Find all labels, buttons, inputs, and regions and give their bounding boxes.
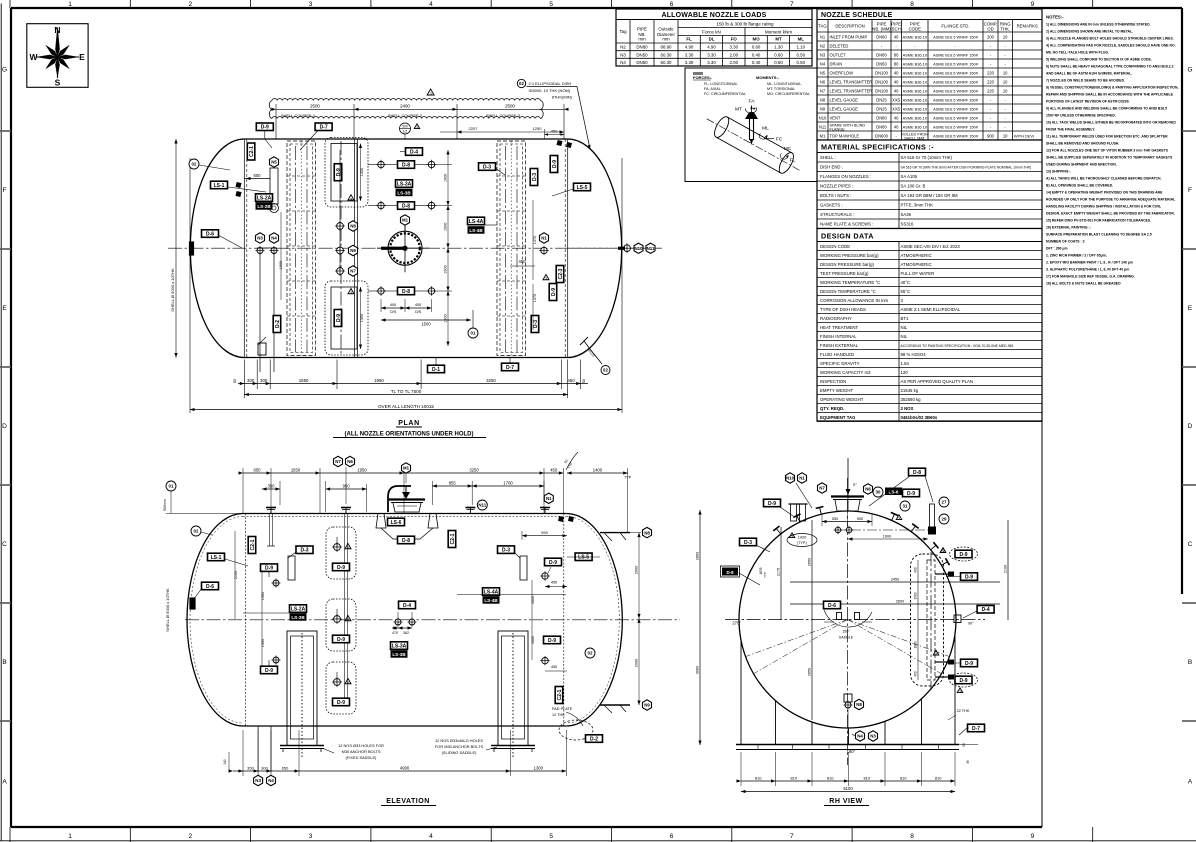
- svg-text:140: 140: [223, 759, 227, 765]
- svg-text:550: 550: [857, 517, 863, 521]
- svg-text:DN80: DN80: [876, 124, 887, 129]
- svg-text:D-3: D-3: [483, 164, 491, 170]
- svg-text:02: 02: [588, 651, 593, 656]
- svg-text:ASME B16.5 WNRF 150#: ASME B16.5 WNRF 150#: [933, 106, 979, 111]
- svg-text:5: 5: [549, 1, 553, 8]
- svg-text:N9: N9: [644, 703, 650, 708]
- svg-text:C: C: [1188, 541, 1193, 548]
- svg-text:D-6: D-6: [206, 584, 214, 590]
- svg-text:N8: N8: [820, 97, 826, 102]
- svg-text:THK.: THK.: [1000, 26, 1010, 31]
- svg-text:950: 950: [343, 484, 351, 489]
- svg-text:DESIGN DATA: DESIGN DATA: [821, 232, 874, 241]
- svg-text:SADDLE: SADDLE: [839, 636, 854, 640]
- svg-text:3.30: 3.30: [707, 60, 716, 65]
- svg-text:13) SHIPPING:-: 13) SHIPPING:-: [1046, 170, 1071, 174]
- svg-text:N1: N1: [820, 34, 826, 39]
- svg-text:PORTIONS OF LATEST REVISION OF: PORTIONS OF LATEST REVISION OF ASTM D329…: [1046, 100, 1130, 104]
- svg-text:D: D: [1188, 423, 1193, 430]
- svg-text:8THK(MIN): 8THK(MIN): [552, 95, 573, 100]
- svg-text:O/S: O/S: [390, 310, 397, 314]
- svg-text:D-8: D-8: [402, 203, 410, 209]
- svg-text:01: 01: [169, 484, 174, 489]
- svg-text:DN25: DN25: [876, 97, 887, 102]
- svg-text:950: 950: [541, 530, 548, 535]
- svg-text:3.30: 3.30: [685, 52, 694, 57]
- svg-text:810: 810: [827, 775, 834, 780]
- svg-text:350: 350: [247, 765, 254, 770]
- svg-text:1420: 1420: [798, 536, 806, 540]
- svg-text:INSPECTION: INSPECTION: [820, 379, 846, 384]
- svg-text:N5: N5: [820, 70, 826, 75]
- svg-text:B: B: [1188, 659, 1192, 666]
- svg-text:SHELL COURSE-2: SHELL COURSE-2: [388, 113, 423, 118]
- svg-text:2100: 2100: [234, 571, 238, 579]
- svg-text:14) EMPTY & OPERATING WEIGHT P: 14) EMPTY & OPERATING WEIGHT PROVIDED ON…: [1046, 191, 1163, 195]
- svg-text:E: E: [1188, 305, 1193, 312]
- svg-text:6) NUTS SHALL BE HEAVY HEXAGON: 6) NUTS SHALL BE HEAVY HEXAGONAL TYPE CO…: [1046, 65, 1174, 69]
- svg-text:4: 4: [429, 833, 433, 840]
- svg-text:A: A: [2, 779, 7, 786]
- svg-text:LEVEL TRANSMITTER: LEVEL TRANSMITTER: [830, 79, 873, 84]
- svg-text:M30 ANCHOR BOLTS: M30 ANCHOR BOLTS: [342, 749, 381, 754]
- svg-text:SHALL BE SUPPLIED SEPERATELY I: SHALL BE SUPPLIED SEPERATELY IN ADDITION…: [1046, 156, 1173, 160]
- svg-text:450: 450: [551, 581, 557, 585]
- svg-text:LEVEL GAUGE: LEVEL GAUGE: [830, 97, 859, 102]
- svg-text:2 NOS: 2 NOS: [901, 406, 914, 411]
- svg-text:810: 810: [790, 775, 797, 780]
- svg-text:D-9: D-9: [265, 668, 273, 674]
- svg-text:DL: DL: [709, 37, 715, 42]
- svg-text:E: E: [2, 305, 7, 312]
- svg-text:30: 30: [876, 490, 881, 495]
- svg-text:D-3: D-3: [300, 548, 308, 554]
- svg-text:CODE: CODE: [909, 26, 922, 31]
- svg-text:ASME B36.10: ASME B36.10: [903, 124, 928, 129]
- svg-text:MT: TORSIONAL: MT: TORSIONAL: [767, 87, 795, 91]
- svg-text:ATMOSPHERIC: ATMOSPHERIC: [901, 262, 932, 267]
- svg-text:N7: N7: [335, 459, 341, 464]
- svg-text:SHELL Ø 5000 x 10THK: SHELL Ø 5000 x 10THK: [165, 588, 170, 632]
- svg-text:2000: 2000: [635, 659, 639, 667]
- svg-text:02: 02: [603, 368, 608, 373]
- svg-text:DN100: DN100: [875, 70, 888, 75]
- svg-text:DESIGN CODE: DESIGN CODE: [820, 244, 850, 249]
- svg-text:90°: 90°: [968, 622, 974, 626]
- svg-text:ASME B36.10: ASME B36.10: [903, 79, 928, 84]
- svg-text:8: 8: [910, 833, 914, 840]
- svg-text:40: 40: [894, 34, 899, 39]
- svg-text:SPECIFIC GRAVITY: SPECIFIC GRAVITY: [820, 361, 860, 366]
- svg-text:500mm: 500mm: [163, 499, 167, 511]
- svg-text:DN80: DN80: [636, 45, 648, 50]
- svg-text:Force kN: Force kN: [702, 30, 721, 35]
- svg-text:FL: FL: [790, 158, 796, 164]
- svg-text:300: 300: [261, 765, 268, 770]
- svg-text:BOLTS / NUTS :: BOLTS / NUTS :: [820, 193, 851, 198]
- svg-text:NUMBER OF COATS : 3: NUMBER OF COATS : 3: [1046, 240, 1085, 244]
- svg-text:8) VESSEL CONSTRUCTION(BUILDIN: 8) VESSEL CONSTRUCTION(BUILDING) & PAINT…: [1046, 86, 1178, 90]
- svg-text:LS-6: LS-6: [889, 489, 899, 494]
- svg-text:LS-5: LS-5: [577, 185, 588, 191]
- svg-text:450: 450: [551, 665, 557, 669]
- svg-text:(TYP.): (TYP.): [797, 541, 807, 545]
- svg-text:REPAIR AND SHIPPING SHALL BE I: REPAIR AND SHIPPING SHALL BE IN ACCORDAN…: [1046, 93, 1174, 97]
- svg-text:10: 10: [1003, 34, 1008, 39]
- svg-text:17) FOR MANHOLE SIZE REF VESSE: 17) FOR MANHOLE SIZE REF VESSEL G.A. DRA…: [1046, 275, 1135, 279]
- svg-text:D-9: D-9: [965, 661, 973, 667]
- svg-text:1900: 1900: [883, 535, 891, 539]
- svg-text:6: 6: [670, 1, 674, 8]
- svg-text:SA36: SA36: [901, 212, 912, 217]
- svg-text:EMPTY WEIGHT: EMPTY WEIGHT: [820, 388, 853, 393]
- svg-text:2175: 2175: [777, 568, 781, 576]
- svg-text:450: 450: [567, 378, 575, 383]
- svg-text:810: 810: [935, 775, 942, 780]
- svg-text:0461b0s/02 3B60s: 0461b0s/02 3B60s: [901, 415, 938, 420]
- svg-text:LS-3B: LS-3B: [392, 652, 406, 657]
- svg-text:ROUNDED UP ONLY FOR THE PURPO: ROUNDED UP ONLY FOR THE PURPOSE TO ARRAN…: [1046, 198, 1175, 202]
- svg-text:1.84: 1.84: [901, 361, 910, 366]
- svg-text:TAG: TAG: [818, 24, 827, 29]
- svg-text:SHELL Ø 5000 x 10THK: SHELL Ø 5000 x 10THK: [170, 268, 175, 312]
- svg-text:TEST PRESSURE bar(g): TEST PRESSURE bar(g): [820, 271, 869, 276]
- svg-text:OPERATING WEIGHT: OPERATING WEIGHT: [820, 397, 864, 402]
- svg-text:650: 650: [282, 765, 289, 770]
- svg-text:D-7: D-7: [320, 125, 328, 131]
- svg-text:D-3: D-3: [533, 320, 539, 328]
- svg-text:VENT: VENT: [830, 115, 841, 120]
- svg-text:F: F: [3, 187, 7, 194]
- svg-text:220: 220: [987, 70, 995, 75]
- svg-text:N4: N4: [268, 778, 274, 783]
- svg-text:FC: CIRCUMFERENTIAL: FC: CIRCUMFERENTIAL: [704, 92, 746, 96]
- svg-text:2207: 2207: [469, 126, 479, 131]
- svg-text:DESIGN PRESSURE bar(g): DESIGN PRESSURE bar(g): [820, 262, 875, 267]
- svg-text:2500: 2500: [310, 104, 320, 109]
- svg-text:2450: 2450: [891, 578, 899, 582]
- svg-text:1) ALL DIMENSIONS ARE IN mm UN: 1) ALL DIMENSIONS ARE IN mm UNLESS OTHER…: [1046, 23, 1151, 27]
- svg-text:40: 40: [894, 124, 899, 129]
- svg-text:F: F: [1188, 187, 1192, 194]
- svg-text:MO: MO: [753, 37, 761, 42]
- svg-text:MC: MC: [784, 146, 792, 152]
- svg-text:INLET FROM PUMP: INLET FROM PUMP: [830, 34, 868, 39]
- svg-text:SHELL COURSE-3: SHELL COURSE-3: [486, 113, 521, 118]
- svg-text:LEVEL TRANSMITTER: LEVEL TRANSMITTER: [830, 88, 873, 93]
- svg-text:D-9: D-9: [959, 552, 967, 558]
- svg-text:FLANGE STD.: FLANGE STD.: [941, 24, 969, 29]
- svg-text:W: W: [29, 52, 38, 62]
- svg-text:N1: N1: [541, 236, 547, 241]
- svg-text:2000: 2000: [635, 566, 639, 574]
- svg-text:D-9: D-9: [265, 565, 273, 571]
- svg-text:9) ALL FLANGES AND WELDING SHA: 9) ALL FLANGES AND WELDING SHALL BE CONF…: [1046, 107, 1167, 111]
- svg-text:LS-6: LS-6: [391, 520, 402, 526]
- svg-text:TL TO TL 7500: TL TO TL 7500: [391, 389, 422, 394]
- svg-text:2650: 2650: [808, 558, 812, 566]
- svg-text:WORKING PRESSURE bar(g): WORKING PRESSURE bar(g): [820, 253, 879, 258]
- svg-text:DN25: DN25: [876, 106, 887, 111]
- svg-text:1950: 1950: [374, 378, 384, 383]
- svg-text:BT1: BT1: [901, 316, 909, 321]
- svg-text:M1: M1: [820, 133, 826, 138]
- svg-text:DN100: DN100: [875, 79, 888, 84]
- svg-text:ELEVATION: ELEVATION: [386, 798, 430, 805]
- svg-text:5: 5: [549, 833, 553, 840]
- svg-text:OVER ALL LENGTH 10015: OVER ALL LENGTH 10015: [378, 404, 434, 409]
- svg-text:11) ALL TEMPORARY WELDS USED F: 11) ALL TEMPORARY WELDS USED FOR ERECTIO…: [1046, 135, 1168, 139]
- svg-text:3) ALL NOZZLE FLANGES BOLT HOL: 3) ALL NOZZLE FLANGES BOLT HOLES SHOULD …: [1046, 37, 1174, 41]
- svg-text:PIPE: PIPE: [637, 27, 647, 32]
- svg-text:D-3: D-3: [502, 547, 510, 553]
- svg-text:FROM THE FINAL ASSEMBLY.: FROM THE FINAL ASSEMBLY.: [1046, 128, 1095, 132]
- svg-text:12 NOS Ø33x46LG HOLES: 12 NOS Ø33x46LG HOLES: [435, 738, 483, 743]
- svg-text:B: B: [2, 659, 6, 666]
- svg-text:900: 900: [987, 133, 995, 138]
- svg-text:10) ALL TACK WELDS SHALL EITHE: 10) ALL TACK WELDS SHALL EITHER BE INCOR…: [1046, 121, 1176, 125]
- svg-text:OVERFLOW: OVERFLOW: [830, 70, 854, 75]
- svg-text:S: S: [55, 78, 61, 88]
- svg-text:D-8: D-8: [913, 470, 921, 476]
- svg-text:2.00: 2.00: [730, 60, 739, 65]
- svg-text:12) FOR ALL NOZZLES ONE SET OF: 12) FOR ALL NOZZLES ONE SET OF VITON RUB…: [1046, 149, 1169, 153]
- svg-text:7: 7: [790, 833, 794, 840]
- svg-text:FL: FL: [686, 37, 692, 42]
- svg-text:D-4: D-4: [410, 149, 418, 155]
- svg-text:LS-3B: LS-3B: [397, 191, 411, 196]
- svg-text:B) ALL OPENINGS SHALL BE COVER: B) ALL OPENINGS SHALL BE COVERED.: [1046, 184, 1113, 188]
- svg-text:WORKING CAPACITY m3: WORKING CAPACITY m3: [820, 370, 871, 375]
- svg-text:D-9: D-9: [337, 637, 345, 643]
- svg-text:ASME SEC-VIII DIV I Ed. 2023: ASME SEC-VIII DIV I Ed. 2023: [901, 244, 961, 249]
- svg-text:N6: N6: [865, 487, 871, 492]
- svg-text:40°C: 40°C: [901, 280, 911, 285]
- svg-text:FC: FC: [776, 137, 783, 143]
- svg-text:M6. NO TELL-TALE HOLE WITH PLU: M6. NO TELL-TALE HOLE WITH PLUG.: [1046, 51, 1109, 55]
- svg-text:LS-1: LS-1: [211, 555, 222, 561]
- svg-text:EQUIPMENT TAG: EQUIPMENT TAG: [820, 415, 856, 420]
- svg-text:N10: N10: [634, 246, 643, 251]
- svg-text:DESIGN. EXACT EMPTY WEIGHT SHA: DESIGN. EXACT EMPTY WEIGHT SHALL BE PROV…: [1046, 212, 1175, 216]
- svg-text:18) ALL BOLTS & NUTS SHALL BE: 18) ALL BOLTS & NUTS SHALL BE GREASED: [1046, 282, 1121, 286]
- svg-text:TYP: TYP: [763, 572, 767, 578]
- svg-text:3.30: 3.30: [685, 60, 694, 65]
- svg-text:Tag: Tag: [619, 29, 627, 34]
- svg-text:ASME B16.5 WNRF 150#: ASME B16.5 WNRF 150#: [933, 61, 979, 66]
- svg-text:150 lb & 300 lb flange rating: 150 lb & 300 lb flange rating: [716, 22, 774, 27]
- svg-text:50: 50: [962, 743, 966, 747]
- svg-text:200: 200: [987, 34, 995, 39]
- svg-text:12 THK: 12 THK: [552, 713, 565, 717]
- svg-text:ASME B16.5 WNRF 150#: ASME B16.5 WNRF 150#: [933, 52, 979, 57]
- svg-text:1250: 1250: [533, 126, 543, 131]
- svg-text:N9: N9: [350, 248, 356, 253]
- svg-text:ASME B16.5 WNRF 150#: ASME B16.5 WNRF 150#: [933, 88, 979, 93]
- svg-text:10: 10: [1003, 88, 1008, 93]
- svg-text:1500: 1500: [421, 322, 431, 327]
- svg-text:ASME B16.5 WNRF 150#: ASME B16.5 WNRF 150#: [933, 70, 979, 75]
- svg-text:HANDLING FACILITY DURING SHIP: HANDLING FACILITY DURING SHIPPING / INST…: [1046, 205, 1161, 209]
- svg-text:N10: N10: [819, 115, 827, 120]
- svg-text:01: 01: [471, 331, 476, 336]
- svg-text:PAD PLATE: PAD PLATE: [552, 707, 573, 711]
- svg-text:4900: 4900: [400, 765, 410, 770]
- svg-text:120: 120: [901, 370, 909, 375]
- svg-text:D-9: D-9: [549, 560, 557, 566]
- svg-text:3060: 3060: [696, 666, 700, 674]
- svg-text:FL: LONGITUDINAL: FL: LONGITUDINAL: [704, 82, 738, 86]
- svg-text:A: A: [1188, 779, 1193, 786]
- svg-text:1900: 1900: [444, 174, 448, 182]
- svg-text:3250: 3250: [469, 467, 479, 472]
- svg-text:MOMENTS:-: MOMENTS:-: [756, 75, 780, 80]
- svg-text:400: 400: [415, 303, 421, 307]
- svg-text:M1: M1: [402, 218, 409, 223]
- svg-text:A) ALL TANKS WILL BE THOROUGHL: A) ALL TANKS WILL BE THOROUGHLY CLEANED …: [1046, 177, 1162, 181]
- svg-text:16) EXTERNAL PAINTING :-: 16) EXTERNAL PAINTING :-: [1046, 226, 1091, 230]
- svg-text:ASME B36.10: ASME B36.10: [903, 70, 928, 75]
- svg-text:8: 8: [910, 1, 914, 8]
- svg-text:DRAIN: DRAIN: [830, 61, 843, 66]
- svg-text:ASME B16.5 WNRF 150#: ASME B16.5 WNRF 150#: [933, 34, 979, 39]
- svg-text:55°C: 55°C: [901, 289, 911, 294]
- svg-text:7: 7: [790, 1, 794, 8]
- svg-text:400: 400: [914, 671, 918, 677]
- svg-text:35: 35: [966, 760, 970, 764]
- svg-text:LS-4A: LS-4A: [469, 219, 484, 225]
- svg-text:AND SHALL BE OF ASTM A194 Gr8M: AND SHALL BE OF ASTM A194 Gr8M/8S. MATER…: [1046, 72, 1132, 76]
- svg-text:50: 50: [582, 379, 586, 383]
- svg-text:27: 27: [942, 500, 947, 505]
- svg-text:810: 810: [863, 775, 870, 780]
- svg-text:LS-1: LS-1: [214, 183, 225, 189]
- svg-text:1000: 1000: [531, 596, 535, 604]
- svg-text:DISH END :: DISH END :: [820, 165, 843, 170]
- svg-text:FO: FO: [731, 37, 738, 42]
- svg-text:CORROSION ALLOWANCE IN mm: CORROSION ALLOWANCE IN mm: [820, 298, 889, 303]
- svg-text:3.30: 3.30: [707, 52, 716, 57]
- svg-text:N4: N4: [620, 60, 626, 65]
- svg-text:7) NOZZLES ON WELD SEAMS TO BE: 7) NOZZLES ON WELD SEAMS TO BE AVOIDED.: [1046, 79, 1125, 83]
- svg-text:FINISH EXTERNAL: FINISH EXTERNAL: [820, 343, 859, 348]
- svg-text:02: 02: [192, 162, 197, 167]
- svg-text:0.60: 0.60: [752, 45, 761, 50]
- svg-text:N: N: [54, 25, 60, 35]
- svg-text:3. ALIPHATIC POLYURETHANE: 3. ALIPHATIC POLYURETHANE / 1, 8, R/ DFT…: [1046, 268, 1129, 272]
- svg-text:0.60: 0.60: [774, 52, 783, 57]
- svg-text:0.40: 0.40: [752, 52, 761, 57]
- svg-text:0.40: 0.40: [752, 60, 761, 65]
- svg-text:N3: N3: [820, 52, 826, 57]
- svg-text:N3: N3: [620, 52, 626, 57]
- svg-text:1: 1: [68, 1, 72, 8]
- svg-text:2: 2: [188, 1, 192, 8]
- svg-text:400: 400: [914, 567, 918, 573]
- svg-text:350: 350: [268, 484, 276, 489]
- svg-text:1700: 1700: [503, 481, 513, 486]
- svg-text:G: G: [2, 67, 7, 74]
- svg-text:10: 10: [1003, 79, 1008, 84]
- svg-text:FLANGE: FLANGE: [830, 127, 846, 131]
- svg-text:N1: N1: [546, 496, 552, 501]
- svg-text:4: 4: [429, 1, 433, 8]
- svg-text:220: 220: [987, 88, 995, 93]
- svg-text:ASME B36.10: ASME B36.10: [903, 115, 928, 120]
- svg-text:N8: N8: [350, 224, 356, 229]
- svg-text:ML: ML: [762, 126, 769, 132]
- svg-text:1.30: 1.30: [774, 45, 783, 50]
- svg-text:LS-4B: LS-4B: [484, 598, 498, 603]
- svg-text:88.90: 88.90: [661, 45, 673, 50]
- svg-text:N11: N11: [647, 246, 655, 251]
- svg-text:D-9: D-9: [552, 160, 558, 168]
- svg-text:NIL: NIL: [901, 334, 908, 339]
- svg-text:mm: mm: [662, 37, 670, 42]
- svg-text:22 THK: 22 THK: [957, 709, 970, 713]
- svg-text:N4: N4: [271, 236, 277, 241]
- svg-text:1550: 1550: [291, 467, 301, 472]
- svg-text:10: 10: [1003, 133, 1008, 138]
- svg-text:1900: 1900: [261, 592, 265, 600]
- svg-text:DFT : 260 μm: DFT : 260 μm: [1046, 247, 1068, 251]
- svg-text:98 % H2SO4: 98 % H2SO4: [901, 352, 927, 357]
- svg-text:FORCES:-: FORCES:-: [693, 75, 713, 80]
- svg-text:N7: N7: [820, 88, 826, 93]
- svg-text:40: 40: [894, 115, 899, 120]
- svg-text:QTY. REQD.: QTY. REQD.: [820, 406, 844, 411]
- svg-text:450: 450: [550, 467, 558, 472]
- svg-text:1. ZINC RICH PRIMER / 2 /: 1. ZINC RICH PRIMER / 2 / DFT 65μm.: [1046, 254, 1107, 258]
- svg-text:C2-1: C2-1: [250, 539, 256, 550]
- svg-text:40: 40: [894, 88, 899, 93]
- svg-text:D-9: D-9: [548, 638, 556, 644]
- svg-text:2) ALL DIMENSIONS SHOWN ARE ME: 2) ALL DIMENSIONS SHOWN ARE METAL TO MET…: [1046, 30, 1133, 34]
- svg-text:300: 300: [260, 378, 268, 383]
- svg-text:2600: 2600: [896, 600, 904, 604]
- svg-text:LS-2B: LS-2B: [291, 615, 305, 620]
- svg-text:150°: 150°: [842, 630, 850, 634]
- svg-text:1: 1: [68, 833, 72, 840]
- svg-text:N5: N5: [271, 160, 277, 165]
- svg-text:ASME B36.10: ASME B36.10: [903, 106, 928, 111]
- svg-text:ASME B36.10: ASME B36.10: [903, 61, 928, 66]
- svg-text:AS PER APPROVED QUALITY PLAN: AS PER APPROVED QUALITY PLAN: [901, 379, 974, 384]
- svg-text:FINISH INTERNAL: FINISH INTERNAL: [820, 334, 857, 339]
- svg-text:60.30: 60.30: [661, 60, 673, 65]
- svg-text:4) ALL COMPENSATING PAD FOR NO: 4) ALL COMPENSATING PAD FOR NOZZLE, SADD…: [1046, 44, 1176, 48]
- svg-text:N6: N6: [820, 79, 826, 84]
- svg-text:D-8: D-8: [402, 162, 410, 168]
- svg-text:3250: 3250: [486, 378, 496, 383]
- svg-text:D-7: D-7: [972, 726, 980, 732]
- svg-text:D-9: D-9: [337, 565, 345, 571]
- svg-text:N8: N8: [856, 702, 862, 707]
- svg-text:N7: N7: [819, 486, 825, 491]
- svg-text:SCH: SCH: [892, 26, 901, 31]
- svg-text:ALLOWABLE NOZZLE LOADS: ALLOWABLE NOZZLE LOADS: [661, 12, 766, 19]
- svg-text:3.30: 3.30: [730, 45, 739, 50]
- svg-text:810: 810: [900, 775, 907, 780]
- svg-text:80: 80: [894, 52, 899, 57]
- svg-text:C2-1: C2-1: [450, 533, 456, 544]
- svg-text:3: 3: [309, 833, 313, 840]
- svg-text:REMARKS: REMARKS: [1017, 24, 1038, 29]
- svg-text:M1: M1: [403, 466, 410, 471]
- svg-text:LS-2A: LS-2A: [257, 195, 272, 201]
- svg-text:0.60: 0.60: [774, 60, 783, 65]
- svg-text:1000: 1000: [531, 636, 535, 644]
